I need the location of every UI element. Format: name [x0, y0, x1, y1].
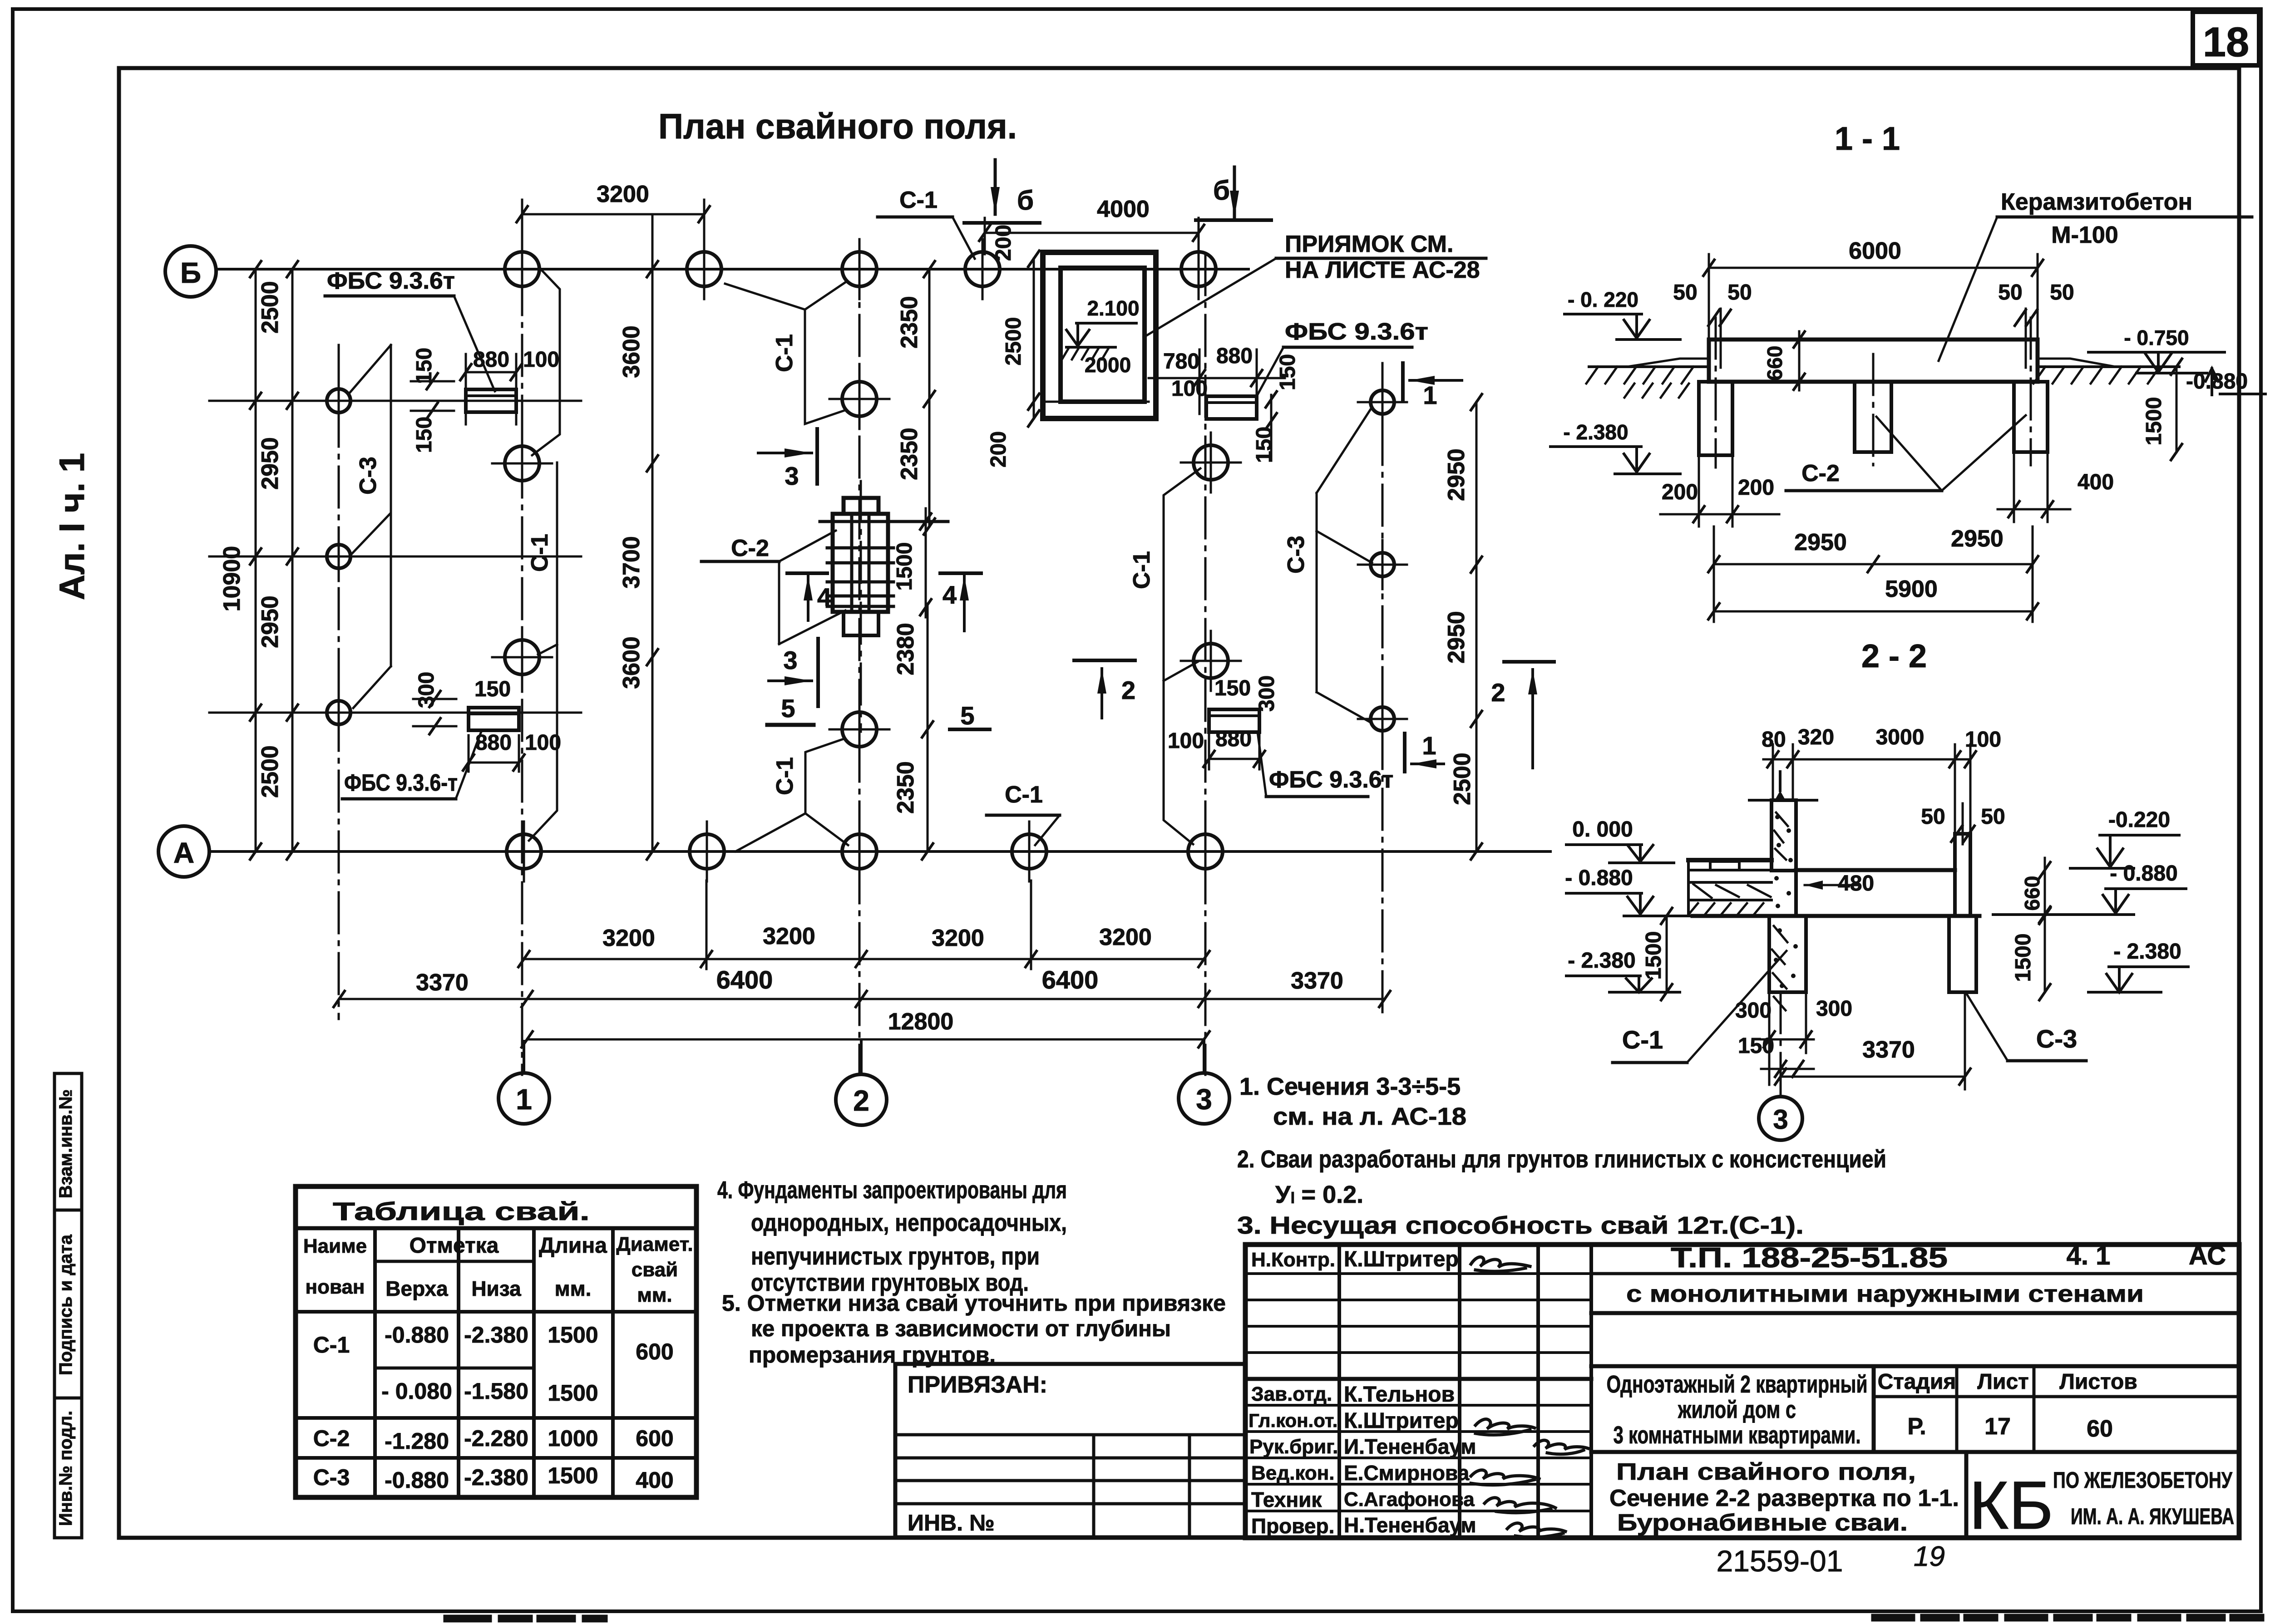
svg-text:1500: 1500 [548, 1322, 598, 1348]
svg-text:-0.220: -0.220 [2108, 808, 2170, 832]
svg-text:0. 000: 0. 000 [1572, 817, 1633, 842]
svg-text:- 0.080: - 0.080 [381, 1378, 452, 1404]
column line 2 [859, 254, 861, 1075]
svg-text:мм.: мм. [637, 1284, 672, 1306]
svg-text:АС: АС [2189, 1241, 2226, 1270]
svg-text:3200: 3200 [932, 925, 984, 951]
dim 4000 [979, 196, 1204, 254]
svg-text:1: 1 [1423, 381, 1437, 409]
dim 3200 top [517, 181, 710, 290]
svg-text:Диамет.: Диамет. [616, 1233, 693, 1255]
svg-text:-2.380: -2.380 [464, 1465, 528, 1490]
note 1 [1239, 1073, 1466, 1130]
svg-text:2.100: 2.100 [1087, 296, 1139, 320]
dims 3370+6400+6400+3370 [334, 965, 1390, 1007]
svg-text:Таблица свай.: Таблица свай. [333, 1197, 590, 1225]
svg-text:нован: нован [306, 1276, 365, 1298]
piles C-1 on axis A [494, 822, 1235, 881]
svg-text:С-1: С-1 [771, 334, 798, 372]
level -0.880 right [2186, 369, 2265, 395]
section marker 1 mid right [1405, 731, 1444, 772]
svg-text:свай: свай [632, 1259, 678, 1281]
svg-text:18: 18 [2203, 19, 2249, 65]
svg-text:Стадия: Стадия [1878, 1370, 1956, 1394]
svg-text:3600: 3600 [618, 325, 645, 378]
svg-text:- 2.380: - 2.380 [2113, 940, 2181, 964]
svg-text:150: 150 [1276, 354, 1300, 390]
svg-text:2000: 2000 [1085, 353, 1131, 377]
svg-text:2500: 2500 [257, 745, 283, 798]
svg-text:1. Сечения 3-3÷5-5: 1. Сечения 3-3÷5-5 [1239, 1073, 1461, 1100]
svg-text:6400: 6400 [1042, 965, 1099, 994]
section 2-2 C-1 label [1613, 951, 1786, 1063]
svg-text:С-3: С-3 [355, 457, 381, 495]
svg-text:150: 150 [1738, 1034, 1774, 1058]
svg-text:-1.580: -1.580 [464, 1378, 528, 1404]
svg-text:И.Тененбаум: И.Тененбаум [1344, 1435, 1476, 1458]
svg-text:2350: 2350 [893, 761, 919, 814]
column bubble 1 [498, 1041, 549, 1124]
svg-text:50: 50 [1998, 281, 2022, 305]
C-3 right centerline [1382, 363, 1384, 1019]
svg-text:2950: 2950 [1794, 529, 1847, 556]
C-1 leader top center [878, 187, 975, 259]
svg-text:2: 2 [1121, 676, 1135, 704]
piles C-1 middle center column [829, 369, 889, 759]
svg-text:ФБС 9.3.6т: ФБС 9.3.6т [327, 268, 455, 294]
svg-text:С-1: С-1 [1129, 551, 1155, 589]
dim 1500 cage [893, 508, 931, 617]
note 3 [1237, 1212, 1804, 1239]
svg-text:3700: 3700 [618, 536, 645, 589]
C-2 label section 1-1 [1786, 415, 2026, 491]
svg-text:50: 50 [1981, 805, 2005, 829]
svg-text:Техник: Техник [1251, 1488, 1322, 1511]
section 1-1 slab [1709, 340, 2038, 382]
svg-text:- 2.380: - 2.380 [1563, 420, 1628, 444]
svg-text:3370: 3370 [1862, 1037, 1915, 1063]
priyamok level 2.100 [1062, 296, 1140, 377]
svg-text:см. на л. АС-18: см. на л. АС-18 [1273, 1103, 1466, 1130]
section marker 5 right [950, 701, 990, 730]
FBS 9.3.6t block bottom-left [413, 672, 561, 772]
FBS 9.3.6t block mid-right [1168, 675, 1279, 769]
svg-text:С-2: С-2 [1801, 460, 1840, 487]
svg-text:600: 600 [636, 1426, 673, 1451]
svg-text:300: 300 [1255, 675, 1279, 712]
svg-text:5: 5 [960, 701, 974, 730]
note 2 [1237, 1146, 1886, 1208]
level -0.750 [2088, 326, 2225, 373]
svg-text:2500: 2500 [1449, 753, 1475, 805]
FBS label bottom-left [342, 732, 481, 799]
svg-text:19: 19 [1914, 1541, 1945, 1572]
svg-text:ПО ЖЕЛЕЗОБЕТОНУ: ПО ЖЕЛЕЗОБЕТОНУ [2053, 1467, 2233, 1493]
svg-text:С-1: С-1 [899, 187, 938, 213]
svg-text:1500: 1500 [2011, 934, 2035, 982]
svg-text:С-1: С-1 [313, 1332, 350, 1358]
svg-text:200: 200 [987, 431, 1011, 468]
svg-text:3200: 3200 [597, 181, 649, 207]
svg-text:Б: Б [180, 256, 201, 289]
section marker 5 left [767, 694, 814, 725]
note 5 [722, 1290, 1226, 1368]
svg-text:150: 150 [1252, 427, 1276, 463]
main title [658, 106, 1017, 146]
svg-text:3. Несущая способность свай 1: 3. Несущая способность свай 12т.(С-1). [1237, 1212, 1804, 1239]
FBS label mid-right [1258, 732, 1393, 797]
svg-text:4: 4 [817, 583, 831, 611]
svg-text:жилой дом с: жилой дом с [1678, 1396, 1796, 1423]
svg-text:мм.: мм. [555, 1277, 592, 1300]
svg-text:2380: 2380 [893, 623, 919, 675]
section marker 4 left [787, 573, 831, 620]
svg-text:150: 150 [474, 677, 511, 701]
sheet number box 18 [2193, 12, 2259, 65]
svg-text:Е.Смирнова: Е.Смирнова [1344, 1461, 1470, 1485]
svg-text:- 0.880: - 0.880 [2110, 861, 2177, 886]
svg-text:2: 2 [1491, 678, 1505, 707]
C-2 label [701, 531, 845, 644]
svg-text:3 комнатными квартирами.: 3 комнатными квартирами. [1614, 1422, 1861, 1449]
svg-text:6400: 6400 [716, 965, 773, 994]
svg-text:600: 600 [636, 1339, 673, 1364]
svg-text:б: б [1213, 175, 1230, 206]
svg-text:100: 100 [1168, 729, 1204, 753]
svg-text:Н.Контр.: Н.Контр. [1251, 1249, 1335, 1271]
svg-text:21559-01: 21559-01 [1717, 1544, 1843, 1578]
priyamok leader text [1144, 231, 1486, 337]
svg-text:2: 2 [853, 1084, 869, 1117]
piles C-1 on axis B [492, 239, 1229, 299]
svg-text:Ал. I ч. 1: Ал. I ч. 1 [52, 453, 92, 600]
svg-text:Н.Тененбаум: Н.Тененбаум [1344, 1513, 1476, 1537]
svg-text:1500: 1500 [548, 1380, 598, 1406]
svg-text:Верха: Верха [385, 1277, 448, 1300]
section marker 2 left [1074, 660, 1135, 718]
svg-text:К.Тельнов: К.Тельнов [1344, 1383, 1455, 1407]
svg-text:Керамзитобетон: Керамзитобетон [2001, 189, 2192, 215]
svg-text:- 2.380: - 2.380 [1568, 949, 1635, 973]
svg-text:Гл.кон.от.: Гл.кон.от. [1248, 1410, 1337, 1431]
svg-text:880: 880 [1216, 344, 1253, 368]
svg-text:Лист: Лист [1977, 1370, 2028, 1394]
section 2-2 dims 300 300 150 [1735, 992, 1852, 1085]
svg-text:НА ЛИСТЕ АС-28: НА ЛИСТЕ АС-28 [1285, 257, 1480, 283]
svg-text:200: 200 [992, 225, 1016, 261]
svg-text:Листов: Листов [2059, 1370, 2137, 1394]
section 2-2 title [1861, 638, 1927, 674]
svg-text:60: 60 [2087, 1416, 2113, 1442]
svg-text:3200: 3200 [1099, 924, 1152, 950]
svg-text:660: 660 [2020, 876, 2044, 911]
FBS 9.3.6t block top-right (priyamok side) [1149, 344, 1300, 463]
section marker 4 right [940, 573, 981, 631]
svg-text:12800: 12800 [888, 1009, 954, 1035]
svg-text:ФБС 9.3.6-т: ФБС 9.3.6-т [344, 770, 458, 796]
svg-text:2950: 2950 [257, 595, 283, 648]
svg-text:ПРИЯМОК СМ.: ПРИЯМОК СМ. [1285, 231, 1453, 257]
section 2-2 wall [1749, 772, 1817, 908]
svg-text:Т.П. 188-25-51.85: Т.П. 188-25-51.85 [1671, 1242, 1948, 1274]
level -0.220 [1564, 288, 1680, 340]
svg-text:50: 50 [1727, 281, 1752, 305]
svg-text:-0.880: -0.880 [385, 1322, 449, 1348]
svg-text:100: 100 [523, 348, 559, 372]
pile table [296, 1186, 696, 1497]
svg-text:1 - 1: 1 - 1 [1835, 121, 1900, 157]
C-1 bracket right column [1129, 468, 1200, 844]
svg-text:Взам.инв.№: Взам.инв.№ [56, 1089, 76, 1198]
dim 2950/2950/2500 right [1443, 394, 1482, 859]
svg-text:Подпись и дата: Подпись и дата [56, 1234, 76, 1375]
signatures [1471, 1257, 1588, 1537]
svg-text:Низа: Низа [471, 1277, 521, 1300]
svg-text:- 0.880: - 0.880 [1565, 866, 1633, 890]
svg-text:10900: 10900 [219, 546, 245, 612]
svg-text:ФБС 9.3.6т: ФБС 9.3.6т [1269, 767, 1393, 793]
section 2-2 dim 1500 right [2011, 906, 2050, 1000]
section marker 2 right [1491, 662, 1554, 768]
svg-text:Наиме: Наиме [303, 1235, 367, 1257]
C-3 bracket left [349, 345, 391, 708]
svg-text:2350: 2350 [896, 428, 923, 480]
svg-text:ИМ. А. А. ЯКУШЕВА: ИМ. А. А. ЯКУШЕВА [2071, 1504, 2234, 1529]
svg-text:А: А [173, 837, 194, 869]
section 2-2 dim 1500 left [1642, 908, 1672, 1000]
svg-text:2. Сваи разработаны для грунто: 2. Сваи разработаны для грунтов глинисты… [1237, 1146, 1886, 1173]
svg-text:С-1: С-1 [1005, 782, 1043, 808]
column line 3 [1204, 254, 1207, 1075]
C-1 bracket upper center [725, 282, 845, 424]
svg-text:400: 400 [2078, 470, 2114, 494]
svg-text:однородных, непросадочных,: однородных, непросадочных, [751, 1209, 1067, 1236]
svg-text:Рук.бриг.: Рук.бриг. [1249, 1436, 1338, 1458]
svg-text:1500: 1500 [893, 542, 917, 591]
svg-text:4. Фундаменты запроектированы: 4. Фундаменты запроектированы для [717, 1176, 1067, 1204]
svg-text:1500: 1500 [1642, 931, 1666, 980]
column bubble 3 [1179, 1041, 1229, 1124]
svg-text:- 0. 220: - 0. 220 [1568, 288, 1638, 311]
svg-text:5: 5 [781, 694, 795, 723]
svg-text:С-2: С-2 [313, 1426, 350, 1451]
priyamok (pit) rectangles [1043, 252, 1156, 418]
section 1-1 dims 200 200 [1660, 455, 1779, 527]
title block right part [1591, 1241, 2239, 1543]
C-2 rebar cage [820, 481, 948, 732]
section 2-2 floor left [1688, 860, 1772, 916]
svg-text:С-2: С-2 [731, 535, 769, 561]
axis B bubble [165, 246, 216, 297]
section 2-2 levels right [1993, 808, 2188, 992]
title block attachment box (privyazan) [895, 1364, 1245, 1537]
svg-text:ПРИВЯЗАН:: ПРИВЯЗАН: [908, 1372, 1047, 1398]
svg-text:200: 200 [1662, 480, 1698, 504]
section marker 3 lower [769, 639, 818, 706]
svg-text:3370: 3370 [416, 969, 469, 996]
bottom scan artifacts [447, 1618, 2270, 1619]
svg-text:100: 100 [525, 731, 561, 755]
svg-text:4. 1: 4. 1 [2067, 1241, 2111, 1270]
piles C-1 middle right column [1181, 433, 1241, 691]
section marker 3 upper [758, 429, 817, 490]
svg-text:-1.280: -1.280 [385, 1428, 449, 1454]
svg-text:50: 50 [2050, 281, 2074, 305]
section 1-1 dim 1500 right [2142, 359, 2182, 460]
section 2-2 column bubble 3 [1759, 992, 1802, 1140]
svg-text:К.Штритер: К.Штритер [1344, 1247, 1459, 1271]
svg-text:3370: 3370 [1291, 968, 1343, 994]
svg-text:1: 1 [1422, 731, 1436, 760]
svg-text:С-1: С-1 [527, 534, 553, 572]
svg-text:17: 17 [1984, 1413, 2011, 1440]
priyamok dims 2500/200/200 [987, 225, 1149, 468]
svg-text:ФБС 9.3.6т: ФБС 9.3.6т [1285, 319, 1428, 345]
svg-text:-2.380: -2.380 [464, 1322, 528, 1348]
svg-text:2950: 2950 [257, 437, 283, 490]
svg-text:200: 200 [1738, 476, 1774, 500]
section 2-2 levels left [1565, 817, 1693, 992]
svg-text:ИНВ. №: ИНВ. № [908, 1510, 995, 1535]
svg-text:План свайного поля,: План свайного поля, [1616, 1459, 1916, 1485]
svg-text:150: 150 [412, 417, 436, 453]
svg-text:1000: 1000 [548, 1426, 598, 1451]
svg-text:5. Отметки низа свай уточнить: 5. Отметки низа свай уточнить при привяз… [722, 1290, 1226, 1316]
section 1-1 dims 50 50 [1673, 281, 2074, 368]
svg-text:4: 4 [943, 581, 957, 609]
section 2-2 top dims 80 320 3000 100 [1762, 725, 2001, 834]
keramzit label [1939, 189, 2252, 361]
svg-text:Уₗ = 0.2.: Уₗ = 0.2. [1275, 1181, 1363, 1208]
section 1-1 title [1835, 121, 1900, 157]
svg-text:Отметка: Отметка [410, 1234, 499, 1258]
svg-text:Сечение 2-2 развертка по 1-1.: Сечение 2-2 развертка по 1-1. [1609, 1485, 1959, 1511]
C-3 left centerline [338, 345, 340, 1019]
section marker b left [964, 160, 1040, 223]
svg-text:Вед.кон.: Вед.кон. [1251, 1462, 1335, 1484]
svg-text:Провер.: Провер. [1251, 1514, 1334, 1538]
svg-text:780: 780 [1163, 349, 1199, 374]
svg-text:Инв.№ подл.: Инв.№ подл. [56, 1411, 76, 1526]
svg-text:непучинистых грунтов, при: непучинистых грунтов, при [751, 1243, 1040, 1270]
svg-text:3200: 3200 [763, 923, 815, 950]
svg-text:-2.280: -2.280 [464, 1426, 528, 1451]
piles C-3 left column [314, 376, 363, 737]
svg-text:С-3: С-3 [313, 1465, 350, 1490]
svg-text:2950: 2950 [1951, 526, 2004, 552]
left margin label Ал. I ч. 1 [52, 453, 92, 600]
axis A bubble [158, 826, 209, 877]
section 2-2 piles [1769, 916, 1976, 1010]
svg-text:ке проекта в зависимости от гл: ке проекта в зависимости от глубины [751, 1316, 1171, 1341]
svg-text:б: б [1017, 185, 1034, 216]
dim 2350/2350 near column 2 top [896, 261, 935, 534]
svg-text:Р.: Р. [1907, 1413, 1926, 1440]
left stamp boxes [54, 1073, 82, 1538]
svg-text:4000: 4000 [1097, 196, 1150, 222]
C-1 bracket lower center [735, 739, 848, 851]
column line 1 [521, 213, 523, 1075]
axis B line [216, 268, 1248, 271]
svg-text:100: 100 [1171, 377, 1208, 401]
C-1 leader bottom right [987, 782, 1060, 845]
section 1-1 dims 2950 2950 [1708, 526, 2038, 622]
section 2-2 C-3 label [1967, 994, 2086, 1061]
section 2-2 slab [1693, 870, 1979, 916]
svg-text:50: 50 [1673, 281, 1697, 305]
piles C-3 right column [1358, 378, 1407, 743]
svg-text:5900: 5900 [1885, 576, 1938, 602]
column bubble 2 [836, 1041, 887, 1125]
section 1-1 ground right [2033, 359, 2179, 384]
svg-text:3200: 3200 [602, 925, 655, 951]
svg-text:Буронабивные сваи.: Буронабивные сваи. [1617, 1510, 1908, 1536]
svg-text:М-100: М-100 [2051, 222, 2118, 248]
dim 3600/3700/3600 rotated labels [618, 214, 658, 860]
svg-text:480: 480 [1838, 871, 1874, 896]
svg-text:3: 3 [1196, 1083, 1212, 1116]
svg-text:3: 3 [785, 462, 799, 490]
section 2-2 dim 660 [2020, 858, 2050, 926]
svg-text:С.Агафонова: С.Агафонова [1344, 1488, 1475, 1511]
section 2-2 right wall [1955, 834, 1970, 916]
svg-text:2 - 2: 2 - 2 [1861, 638, 1927, 674]
svg-text:КБ: КБ [1969, 1467, 2053, 1543]
left dimension lines 2500/2950/2950/2500 and 10900 [209, 261, 581, 859]
section 2-2 dim 3370 [1775, 992, 1970, 1089]
svg-text:К.Штритер: К.Штритер [1344, 1409, 1459, 1433]
C-1 bracket left column [527, 268, 560, 841]
FBS 9.3.6t block top-left [411, 348, 559, 453]
svg-text:2950: 2950 [1443, 611, 1470, 664]
level -2.380 left [1550, 420, 1680, 474]
svg-text:150: 150 [1214, 676, 1251, 700]
svg-text:400: 400 [636, 1467, 673, 1493]
section marker b right [1196, 167, 1271, 220]
svg-text:С-1: С-1 [772, 757, 798, 795]
C-3 bracket right [1283, 408, 1372, 722]
svg-text:С-3: С-3 [1283, 536, 1309, 574]
svg-text:1500: 1500 [548, 1463, 598, 1488]
dim 12800 [522, 1009, 1209, 1048]
FBS label top-left [325, 268, 495, 391]
svg-text:с монолитными наружными стен: с монолитными наружными стенами [1626, 1281, 2144, 1307]
svg-text:Одноэтажный 2 квартирный: Одноэтажный 2 квартирный [1607, 1371, 1868, 1398]
svg-text:С-3: С-3 [2036, 1024, 2077, 1053]
svg-text:660: 660 [1763, 346, 1786, 381]
svg-text:1500: 1500 [2142, 397, 2166, 446]
bottom dims 3200 x4 [518, 881, 1209, 969]
svg-text:1: 1 [516, 1083, 532, 1116]
svg-text:320: 320 [1798, 725, 1834, 749]
section marker 1 top right [1403, 363, 1462, 409]
section 2-2 dim 480 [1805, 871, 1874, 896]
handwritten doc number [1717, 1541, 1945, 1578]
svg-text:2500: 2500 [257, 281, 283, 334]
svg-text:3000: 3000 [1876, 725, 1925, 749]
section 1-1 dim 5900 [1708, 576, 2038, 620]
svg-text:3: 3 [783, 646, 797, 674]
svg-text:Зав.отд.: Зав.отд. [1251, 1383, 1332, 1405]
svg-text:300: 300 [415, 672, 439, 708]
svg-text:3600: 3600 [618, 636, 645, 689]
section 1-1 dim 6000 [1703, 238, 2043, 340]
title block main [1245, 1245, 2239, 1538]
FBS label top-right [1257, 319, 1428, 396]
svg-text:6000: 6000 [1849, 238, 1901, 264]
svg-text:3: 3 [1773, 1104, 1788, 1135]
section 2-2 dims 50 50 right wall [1921, 803, 2005, 844]
